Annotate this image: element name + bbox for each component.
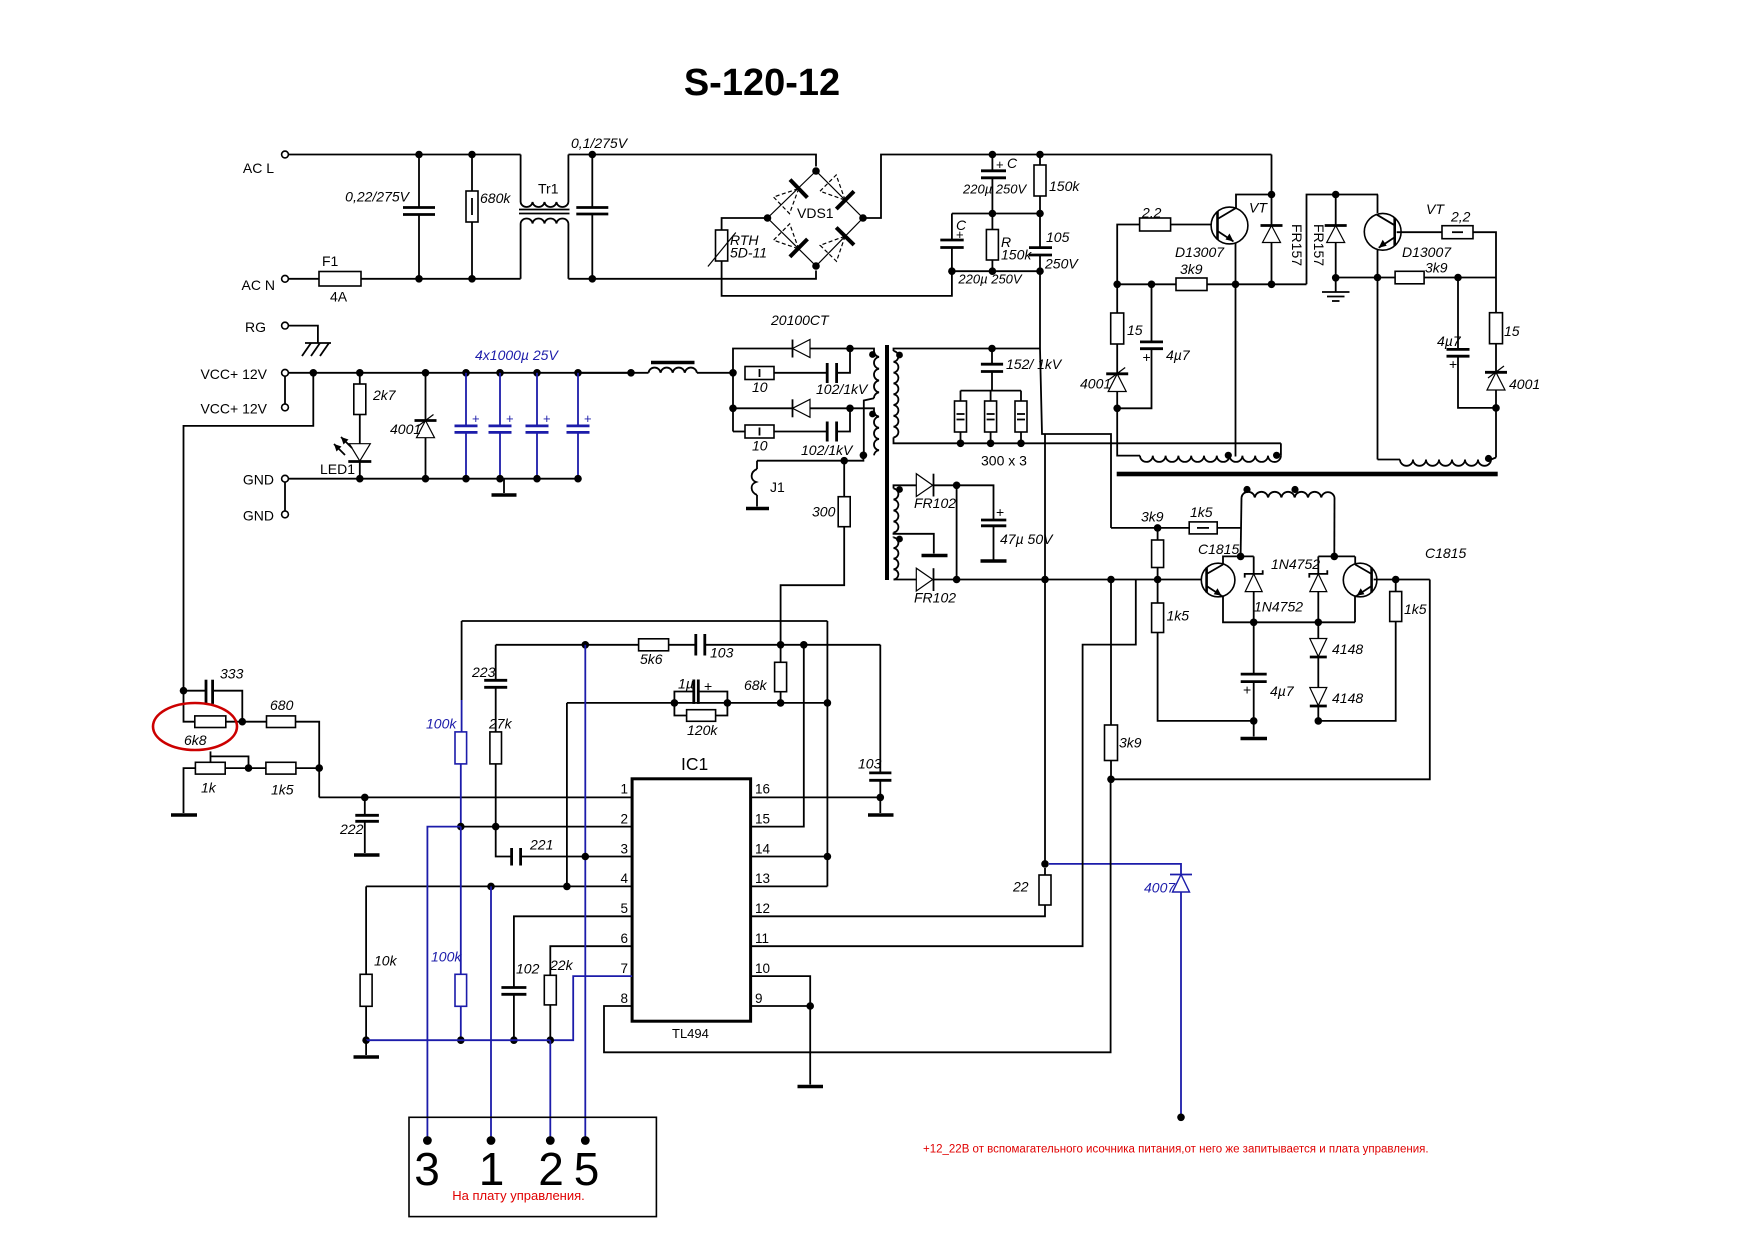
svg-text:7: 7 [620, 961, 628, 976]
wire pins 13-14 tie [826, 621, 828, 886]
svg-text:VT: VT [1426, 201, 1445, 217]
snubber resistor 10 (bottom) [733, 431, 745, 433]
svg-text:+: + [996, 504, 1004, 520]
DC- node wire [952, 270, 1040, 272]
svg-text:105: 105 [1046, 229, 1070, 245]
svg-text:1: 1 [620, 782, 628, 797]
thermistor RTH 5D-11 [722, 218, 768, 230]
svg-text:+: + [1143, 349, 1151, 365]
svg-text:4A: 4A [330, 289, 348, 305]
capacitor 222 [361, 794, 369, 802]
capacitor 1000u (1) [462, 369, 470, 377]
transformer T1 aux winding upper [894, 485, 917, 488]
svg-text:250V: 250V [1044, 256, 1079, 272]
svg-text:680k: 680k [480, 190, 511, 206]
svg-text:1µ: 1µ [678, 676, 694, 692]
svg-text:На плату управления.: На плату управления. [452, 1188, 585, 1203]
wire choke to bridge top [568, 155, 816, 167]
svg-text:2,2: 2,2 [1450, 209, 1471, 225]
svg-text:FR102: FR102 [914, 495, 956, 511]
svg-text:Tr1: Tr1 [538, 181, 559, 197]
svg-text:5: 5 [620, 901, 628, 916]
svg-text:2k7: 2k7 [372, 387, 397, 403]
svg-text:100k: 100k [426, 716, 457, 732]
svg-text:15: 15 [1127, 322, 1143, 338]
aux output rail [957, 579, 1202, 581]
svg-text:47µ 50V: 47µ 50V [1000, 531, 1054, 547]
svg-text:15: 15 [755, 811, 770, 826]
emitter bias rail (left stage) [1117, 283, 1306, 285]
svg-text:27k: 27k [488, 716, 513, 732]
svg-text:TL494: TL494 [672, 1026, 709, 1041]
svg-text:1k: 1k [201, 780, 217, 796]
svg-text:C1815: C1815 [1198, 541, 1239, 557]
bridge diode bottom-left [774, 224, 808, 257]
base bias rail (right stage) [1336, 277, 1395, 279]
capacitor 1000u (2) [496, 369, 504, 377]
svg-text:102/1kV: 102/1kV [816, 381, 869, 397]
svg-text:3: 3 [414, 1143, 440, 1195]
svg-text:68k: 68k [744, 677, 768, 693]
svg-text:680: 680 [270, 697, 294, 713]
resistors 300 x 3 [961, 390, 1022, 392]
svg-text:1N4752: 1N4752 [1254, 599, 1303, 615]
base wire C1815 right [1374, 579, 1430, 581]
red ellipse mark [153, 703, 237, 750]
node A feedback [180, 687, 188, 695]
capacitor 103 (osc) [694, 634, 697, 656]
blue wire to connector 1 [490, 886, 492, 1140]
LED1 [349, 444, 370, 461]
terminal VCC+ 12V (2) [282, 404, 289, 411]
capacitor 47u 50V [957, 485, 994, 519]
svg-text:+: + [543, 411, 551, 426]
svg-text:6k8: 6k8 [184, 732, 207, 748]
ground pin 9 [809, 1006, 811, 1085]
svg-text:4007: 4007 [1144, 880, 1176, 896]
svg-text:+: + [506, 411, 514, 426]
resistor 6k8 [184, 691, 195, 722]
svg-text:+: + [704, 678, 712, 694]
jumper J1 [756, 461, 758, 469]
svg-text:333: 333 [220, 666, 244, 682]
svg-text:+12_22В от вспомагательного ис: +12_22В от вспомагательного исочника пит… [923, 1144, 1429, 1156]
diode 4001 (right) [1485, 371, 1507, 374]
diode 4001 (left) [1106, 372, 1128, 375]
transistor VT D13007 (right) [1364, 213, 1401, 250]
svg-text:1k5: 1k5 [1167, 608, 1190, 624]
svg-text:220µ 250V: 220µ 250V [962, 182, 1027, 197]
svg-text:4µ7: 4µ7 [1270, 683, 1295, 699]
drive transformer T2 base winding (right) [1400, 460, 1491, 466]
wire to drive transformer right winding [1495, 408, 1497, 458]
svg-text:5D-11: 5D-11 [730, 245, 767, 261]
svg-text:4: 4 [620, 871, 628, 886]
capacitor +C 220u 250V [989, 151, 997, 159]
svg-text:FR157: FR157 [1289, 224, 1305, 266]
svg-text:D13007: D13007 [1402, 244, 1452, 260]
svg-text:4x1000µ 25V: 4x1000µ 25V [475, 347, 559, 363]
svg-text:VCC+ 12V: VCC+ 12V [200, 366, 267, 382]
svg-text:VDS1: VDS1 [797, 205, 834, 221]
resistor 1k5 (feedback) [245, 764, 253, 772]
svg-text:150k: 150k [1001, 247, 1032, 263]
transformer T1 secondary upper winding [894, 349, 1041, 352]
drive transformer T2 core [1117, 472, 1498, 477]
svg-text:C1815: C1815 [1425, 545, 1466, 561]
connector box [409, 1117, 656, 1216]
wire VCC to divider [310, 369, 318, 377]
connector pin 5 [581, 1136, 590, 1145]
LED1 arrows [341, 437, 352, 448]
svg-text:3k9: 3k9 [1180, 261, 1203, 277]
blue bottom rail [366, 1039, 550, 1041]
svg-text:10: 10 [752, 379, 768, 395]
transistor C1815 (right) [1343, 563, 1377, 597]
wire AC N to choke [361, 278, 521, 280]
blue wire to diode 4007 [1049, 864, 1181, 874]
ground left rail [365, 1040, 367, 1055]
wire zener right top [1318, 555, 1355, 557]
wire bridge right to DC+ rail [863, 155, 992, 219]
diode 4001 (aux) [422, 369, 430, 377]
svg-text:4001: 4001 [1080, 376, 1111, 392]
resistor 300 [843, 461, 845, 497]
svg-text:GND: GND [243, 508, 274, 524]
svg-text:F1: F1 [322, 253, 339, 269]
diode FR157 (right) [1325, 224, 1347, 227]
diode 4007 (blue) [1170, 874, 1192, 876]
svg-text:100k: 100k [431, 949, 462, 965]
svg-text:J1: J1 [770, 479, 785, 495]
svg-text:15: 15 [1504, 323, 1520, 339]
node VCC junction dot [627, 369, 635, 377]
svg-text:4148: 4148 [1332, 641, 1363, 657]
svg-text:AC L: AC L [243, 160, 274, 176]
capacitor 1u [671, 699, 679, 707]
ground under caps [503, 479, 505, 493]
wire left bias to drive transformer [1117, 408, 1140, 455]
blue wire to connector 3 [427, 827, 460, 1141]
svg-text:+: + [956, 227, 964, 242]
wire base drive 527 [1111, 527, 1189, 529]
svg-text:GND: GND [243, 472, 274, 488]
snubber capacitor 102/1kV (top) [774, 372, 827, 374]
bridge diode bottom-right [820, 228, 854, 262]
svg-text:103: 103 [710, 645, 734, 661]
transformer T1 core [885, 345, 889, 580]
potentiometer 1k [195, 762, 225, 774]
ground under 1k [171, 813, 197, 816]
diode 20100CT bottom [732, 373, 734, 432]
filter inductor [578, 372, 649, 374]
svg-text:10k: 10k [374, 953, 398, 969]
terminal AC L [282, 151, 289, 158]
svg-text:13: 13 [755, 871, 770, 886]
blue wire to connector 5 [584, 645, 586, 1141]
capacitor 4u7 (driver) [1253, 622, 1255, 673]
svg-text:4001: 4001 [390, 421, 421, 437]
svg-text:14: 14 [755, 841, 771, 856]
svg-text:1k5: 1k5 [1404, 601, 1427, 617]
wire primary upper bottom [864, 398, 874, 455]
aux center tap to ground [894, 533, 934, 554]
svg-text:20100CT: 20100CT [770, 312, 830, 328]
svg-text:3: 3 [620, 841, 628, 856]
wire osc top [462, 620, 828, 622]
capacitor 1000u (3) [533, 369, 541, 377]
resistor 120k [674, 703, 686, 716]
svg-text:FR102: FR102 [914, 590, 956, 606]
svg-text:+: + [1449, 356, 1457, 372]
wire choke to bridge bottom [568, 271, 816, 279]
svg-text:152/ 1kV: 152/ 1kV [1006, 356, 1063, 372]
svg-text:222: 222 [339, 821, 364, 837]
resistor 2k7 [356, 369, 364, 377]
svg-text:1N4752: 1N4752 [1271, 556, 1320, 572]
resistor 15 (left) [1116, 284, 1118, 313]
wire osc mid 644 [496, 644, 639, 646]
resistor 150k [1036, 151, 1044, 159]
bridge diode top-right [820, 175, 854, 209]
svg-text:4001: 4001 [1509, 376, 1540, 392]
svg-text:10: 10 [752, 438, 768, 454]
transistor C1815 (left) [1201, 563, 1235, 597]
fuse F1 4A [289, 278, 320, 280]
svg-text:FR157: FR157 [1311, 224, 1327, 266]
wire RTH bottom to DC- [722, 261, 952, 296]
svg-text:223: 223 [471, 664, 496, 680]
wire comp network 702 [567, 702, 828, 704]
svg-text:S-120-12: S-120-12 [684, 62, 840, 104]
svg-text:5k6: 5k6 [640, 651, 663, 667]
resistor 15 (right) [1495, 278, 1497, 313]
drive transformer T2 primary winding [1242, 492, 1335, 498]
svg-text:8: 8 [620, 991, 628, 1006]
svg-text:2: 2 [620, 811, 628, 826]
transistor VT D13007 (left) [1211, 207, 1248, 244]
diode FR102 (upper) [916, 474, 932, 497]
svg-text:103: 103 [858, 756, 882, 772]
svg-text:IC1: IC1 [681, 754, 708, 774]
capacitor 105 250V [1039, 214, 1041, 248]
svg-text:0,1/275V: 0,1/275V [571, 135, 629, 151]
svg-text:VCC+ 12V: VCC+ 12V [200, 401, 267, 417]
wire J1 to primary bottom [757, 455, 863, 460]
collector wire C1815 right [1354, 556, 1356, 564]
terminal RG [282, 322, 289, 329]
svg-text:4148: 4148 [1332, 690, 1363, 706]
svg-text:0,22/275V: 0,22/275V [345, 189, 410, 205]
zener 1N4752 (left) [1253, 556, 1255, 573]
ground under 4u7 driver [1253, 721, 1255, 737]
terminal VCC+ 12V (1) [282, 369, 289, 376]
svg-text:9: 9 [755, 991, 763, 1006]
collector wire C1815 left [1223, 556, 1254, 564]
wire AC L to choke [289, 154, 521, 156]
svg-text:300: 300 [812, 504, 836, 520]
svg-text:4µ7: 4µ7 [1166, 347, 1191, 363]
svg-text:11: 11 [755, 931, 769, 946]
resistor 3k9 (lower) [1110, 580, 1112, 726]
svg-text:C: C [1007, 155, 1018, 171]
bridge diode top-left [774, 180, 808, 214]
connector pin 1 [487, 1136, 496, 1145]
svg-text:1k5: 1k5 [271, 782, 294, 798]
svg-text:16: 16 [755, 782, 770, 797]
transformer T1 primary upper winding [850, 349, 874, 352]
svg-text:+: + [472, 411, 480, 426]
svg-text:1k5: 1k5 [1190, 504, 1213, 520]
resistor 1k5 (driver right) [1390, 592, 1402, 622]
transformer T1 aux winding lower [893, 537, 895, 538]
resistor R 150k [991, 214, 993, 230]
svg-text:150k: 150k [1049, 178, 1080, 194]
earth ground under FR157 [1335, 278, 1337, 292]
capacitor 152/1kV [988, 345, 996, 353]
svg-text:12: 12 [755, 901, 770, 916]
diode FR157 (left) [1261, 224, 1283, 227]
svg-text:120k: 120k [687, 722, 718, 738]
svg-text:AC N: AC N [242, 277, 275, 293]
svg-text:22k: 22k [549, 957, 574, 973]
terminal GND (1) [282, 475, 289, 482]
capacitor 1000u (4) [574, 369, 582, 377]
zener 1N4752 (right) [1317, 556, 1319, 573]
diode FR102 (lower) [916, 568, 932, 591]
svg-text:LED1: LED1 [320, 461, 355, 477]
wire DC- feed down [1040, 349, 1111, 528]
resistor 5k6 [639, 639, 669, 651]
capacitor 4u7 (right) [1457, 278, 1459, 349]
terminal GND (2) [282, 511, 289, 518]
svg-text:VT: VT [1249, 200, 1268, 216]
svg-text:3k9: 3k9 [1425, 260, 1448, 276]
svg-text:3k9: 3k9 [1141, 509, 1164, 525]
svg-text:22: 22 [1012, 879, 1029, 895]
blue wire to connector 2 [549, 1040, 551, 1140]
IC1 TL494 [632, 779, 751, 1021]
wire rail to pin12 column [1044, 580, 1046, 864]
chassis ground [289, 326, 318, 343]
svg-text:10: 10 [755, 961, 770, 976]
wire FR102 cathodes tie [956, 485, 958, 579]
diode 20100CT top [733, 349, 793, 373]
resistor 1k5 (driver left) [1152, 603, 1164, 633]
connector pin 3 [423, 1136, 432, 1145]
svg-text:RG: RG [245, 319, 266, 335]
wire top rail down to FR157 [1271, 155, 1273, 195]
capacitor 4u7 (left) [1150, 283, 1152, 285]
wire to second FR157 [1307, 195, 1379, 285]
svg-text:+: + [584, 411, 592, 426]
diode 4148 (upper) [1317, 622, 1319, 638]
svg-text:6: 6 [620, 931, 628, 946]
emitter wire C1815 right [1355, 596, 1357, 623]
emitter wire C1815 left [1222, 596, 1356, 623]
svg-text:+: + [1243, 682, 1251, 698]
snubber capacitor 102/1kV (bottom) [774, 431, 827, 433]
diode 4148 (lower) [1310, 688, 1327, 706]
ground under 222 [354, 853, 380, 856]
svg-text:102/1kV: 102/1kV [801, 442, 854, 458]
svg-text:221: 221 [529, 837, 553, 853]
connector pin 2 [546, 1136, 555, 1145]
node wire 213 [952, 213, 1040, 215]
transformer T1 primary lower winding [850, 408, 874, 411]
terminal AC N [282, 275, 289, 282]
DC+ rail top [992, 154, 1271, 156]
resistor 22 [1041, 860, 1049, 868]
snubber resistor 10 (top) [745, 367, 774, 380]
svg-text:D13007: D13007 [1175, 244, 1225, 260]
svg-text:3k9: 3k9 [1119, 735, 1142, 751]
drive transformer T2 base winding (left) [1140, 456, 1281, 462]
wire base node loop [1111, 580, 1430, 780]
svg-text:4µ7: 4µ7 [1437, 333, 1462, 349]
svg-text:300 x 3: 300 x 3 [981, 453, 1027, 469]
svg-text:102: 102 [516, 961, 540, 977]
capacitor C 220u 250V (second) [951, 214, 953, 240]
svg-text:+: + [996, 157, 1004, 172]
ground under 103 [879, 797, 881, 813]
wire 300 to 68k node [781, 527, 845, 645]
